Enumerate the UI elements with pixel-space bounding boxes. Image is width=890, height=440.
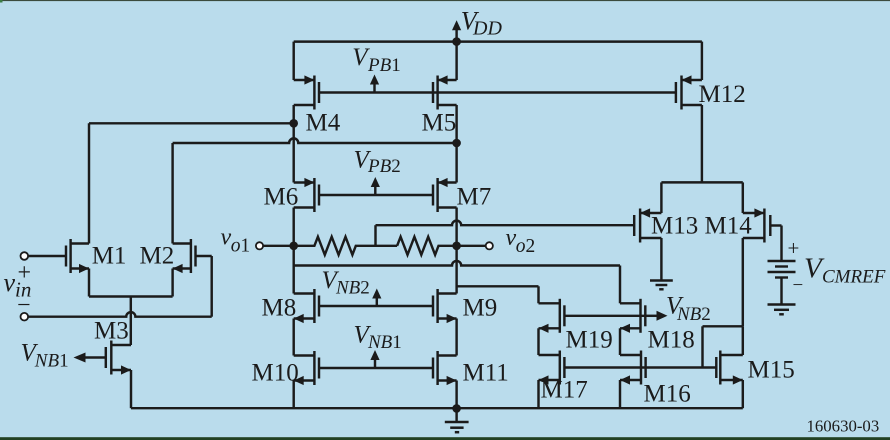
wire vo1 branch to M18 drain (hop over vo2 column): [294, 261, 620, 266]
svg-text:M16: M16: [644, 381, 691, 408]
svg-text:NB: NB: [335, 278, 361, 299]
wire M15 drain vertical: [742, 326, 744, 355]
svg-text:1: 1: [59, 351, 69, 372]
svg-text:NB: NB: [367, 332, 393, 353]
wire vo1 column down to M8 drain: [292, 246, 294, 294]
wire M13 drain to ground: [660, 238, 662, 281]
wire VNB2 gate rail (M8,M9): [319, 305, 433, 307]
svg-text:DD: DD: [472, 18, 502, 40]
svg-text:M5: M5: [422, 110, 457, 137]
node vo1: [289, 242, 298, 251]
terminal vin-: [21, 313, 29, 321]
transistor M3: [106, 341, 131, 375]
transistor M9: [433, 289, 457, 323]
wire M17 source to ground rail: [537, 380, 539, 408]
svg-text:1: 1: [391, 55, 401, 76]
wire M3 source to ground rail: [130, 370, 132, 408]
transistor M5: [433, 75, 457, 109]
svg-text:M4: M4: [306, 110, 341, 137]
label VPB1 with arrow: [373, 84, 375, 93]
wire M8 source to M10 drain: [292, 319, 294, 356]
label VNB2 middle with arrow: [376, 298, 378, 307]
svg-text:M8: M8: [262, 295, 297, 322]
wire VNB1 gate rail (M10,M11): [319, 367, 433, 369]
svg-text:M13 M14: M13 M14: [651, 213, 752, 240]
svg-text:M17: M17: [541, 377, 588, 404]
wire M1 drain route: [89, 122, 294, 124]
transistor M8: [294, 289, 319, 323]
svg-text:CMREF: CMREF: [822, 267, 886, 288]
node VDD terminal: [455, 30, 457, 42]
ground symbol main: [455, 408, 457, 422]
junction dot node A (M4 drain / M6 source): [289, 119, 298, 128]
svg-text:M19: M19: [566, 327, 613, 354]
top border line: [0, 0, 890, 1]
wire M4 source to VDD: [292, 42, 294, 80]
svg-text:M12: M12: [699, 81, 746, 108]
transistor M12: [676, 75, 702, 109]
svg-text:1: 1: [240, 236, 250, 257]
label VNB1 middle with arrow: [374, 360, 376, 369]
transistor M18: [620, 299, 645, 333]
wire M6 source vertical: [292, 123, 294, 182]
terminal vin+: [21, 252, 29, 260]
wire M12 drain to CMFB tail: [701, 105, 703, 182]
transistor M13: [634, 208, 661, 242]
node vo2: [452, 242, 461, 251]
transistor M10: [294, 351, 319, 385]
wire M14 gate to VCMREF battery: [770, 224, 781, 226]
svg-text:M6: M6: [264, 184, 299, 211]
wire M3 drain lead vertical: [130, 344, 132, 346]
svg-text:−: −: [793, 275, 804, 296]
junction dot VDD: [452, 37, 461, 46]
wire VPB1 gate rail (M4,M5,M12): [319, 91, 676, 93]
wire CMFB tail bar: [661, 181, 742, 183]
resistor R left: [294, 237, 397, 255]
wire CM sense: resistor midpoint up and right to M13 gate (hop over vo2 column): [374, 225, 376, 246]
wire M2 drain route (hops over M4-M6 wire): [173, 138, 457, 143]
transistor M19: [539, 299, 565, 333]
wire M13 source vertical: [660, 182, 662, 213]
wire M5 source to VDD: [455, 42, 457, 80]
svg-text:o: o: [231, 236, 241, 257]
svg-text:NB: NB: [34, 351, 60, 372]
svg-text:M18: M18: [648, 327, 695, 354]
transistor M14: [743, 208, 771, 242]
wire M19 source to M17 drain: [537, 328, 539, 355]
svg-text:M1: M1: [92, 243, 127, 270]
svg-text:M7: M7: [457, 184, 492, 211]
transistor M7: [433, 178, 457, 212]
svg-text:M3: M3: [94, 318, 129, 345]
wire M5 drain to node B: [455, 105, 457, 143]
svg-text:1: 1: [392, 332, 402, 353]
battery VCMREF: [768, 260, 796, 262]
label VPB2 with arrow: [374, 187, 376, 196]
transistor M11: [433, 351, 457, 385]
svg-text:PB: PB: [367, 156, 392, 177]
transistor M2: [173, 239, 196, 273]
wire M11 source to ground rail: [455, 381, 457, 409]
svg-text:M2: M2: [140, 243, 175, 270]
svg-text:M11: M11: [463, 360, 509, 387]
corner mark: [0, 0, 3, 3]
wire M18 source to M16 drain: [619, 328, 621, 355]
transistor M1: [66, 239, 89, 273]
svg-text:M9: M9: [463, 295, 498, 322]
ground symbol VCMREF: [768, 303, 796, 305]
wire M12 source to VDD: [701, 42, 703, 80]
label VNB2 right with arrow: [645, 315, 656, 317]
wire M1/M2 sources join to M3 drain: [88, 269, 90, 297]
transistor M16: [620, 351, 646, 385]
svg-text:NB: NB: [676, 304, 702, 325]
svg-text:2: 2: [701, 304, 711, 325]
wire M7 drain to vo2 (CM line hops over it elsewhere): [455, 208, 457, 246]
wire vo2 branch to M19 drain: [457, 285, 539, 287]
wire M10 source to ground rail: [292, 381, 294, 409]
svg-text:+: +: [788, 236, 800, 260]
svg-text:2: 2: [526, 236, 536, 257]
wire M15 source to ground rail: [742, 380, 744, 408]
wire vin+ to M1 gate: [28, 255, 66, 257]
wire M9 source to M11 drain: [455, 319, 457, 356]
junction dot ground node: [452, 404, 461, 413]
wire VNB2 gate rail (M19,M18): [564, 315, 645, 317]
wire M7 source vertical: [455, 143, 457, 183]
wire M4 drain to node A: [292, 105, 294, 123]
wire M16 source to ground rail: [619, 380, 621, 408]
svg-text:o: o: [516, 236, 526, 257]
wire gate rail M17/M16/M15: [564, 366, 716, 368]
wire M6 drain to vo1: [292, 208, 294, 246]
wire vin- to M2 gate (hops over tail wire): [28, 312, 212, 317]
junction dot node B (M5 drain / M7 source): [452, 139, 461, 148]
svg-text:160630-03: 160630-03: [807, 416, 880, 435]
svg-text:PB: PB: [367, 55, 392, 76]
svg-text:M15: M15: [748, 357, 795, 384]
transistor M17: [539, 351, 565, 385]
transistor M15: [716, 351, 743, 385]
svg-text:2: 2: [360, 278, 370, 299]
wire M14 source vertical: [742, 182, 744, 213]
transistor M4: [294, 75, 319, 109]
svg-text:v: v: [4, 268, 16, 297]
ground symbol M13: [650, 279, 673, 281]
svg-text:M10: M10: [252, 360, 299, 387]
wire M14 drain to M15 gate network: [742, 238, 744, 326]
transistor M6: [294, 178, 319, 212]
wire vo2 column down to M9 drain: [455, 246, 457, 294]
bottom border line: [0, 437, 890, 440]
wire VDD rail: [294, 40, 702, 42]
wire VPB2 gate rail (M6,M7): [319, 194, 433, 196]
wire ground rail: [131, 407, 743, 409]
resistor R right: [397, 237, 457, 255]
svg-text:2: 2: [391, 156, 401, 177]
label VNB1 left with arrow: [74, 353, 86, 363]
